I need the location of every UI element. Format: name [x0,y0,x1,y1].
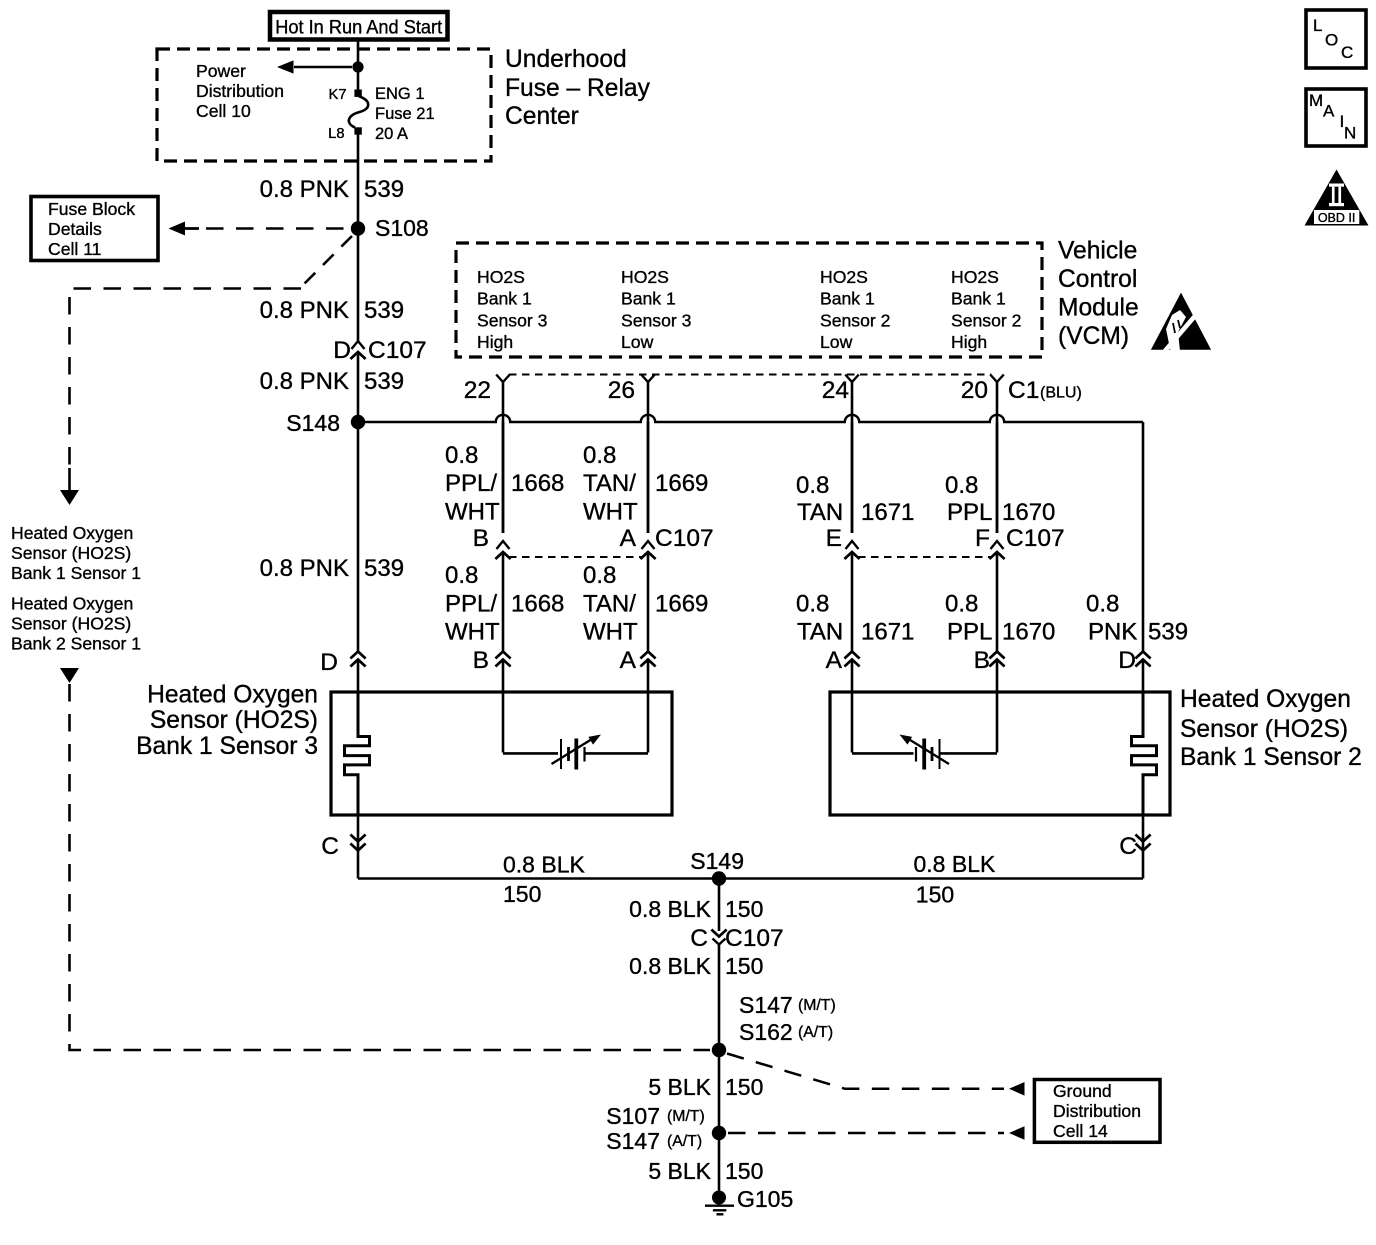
svg-text:0.8: 0.8 [945,472,978,499]
svg-text:5 BLK: 5 BLK [648,1074,711,1100]
svg-text:0.8 PNK: 0.8 PNK [260,297,349,324]
svg-text:L: L [1313,16,1322,35]
svg-text:Cell 11: Cell 11 [48,239,101,259]
svg-text:Low: Low [621,332,654,352]
svg-text:539: 539 [1148,619,1188,646]
svg-text:Bank 2 Sensor 1: Bank 2 Sensor 1 [11,634,141,654]
svg-text:C1: C1 [1008,377,1039,404]
svg-text:Power: Power [196,61,246,81]
svg-text:S147: S147 [739,992,793,1018]
svg-text:Control: Control [1058,266,1137,293]
svg-text:OBD II: OBD II [1318,211,1356,225]
svg-text:150: 150 [503,881,541,907]
svg-text:HO2S: HO2S [477,267,525,287]
svg-text:Bank 1: Bank 1 [951,289,1006,309]
svg-text:S149: S149 [690,848,744,874]
svg-text:20 A: 20 A [375,125,408,143]
svg-text:G105: G105 [737,1186,793,1212]
svg-text:WHT: WHT [583,619,638,646]
svg-text:TAN/: TAN/ [583,470,636,497]
svg-text:O: O [1325,31,1338,50]
svg-text:ENG 1: ENG 1 [375,85,425,103]
svg-text:Hot In Run And Start: Hot In Run And Start [275,17,443,39]
svg-text:M: M [1309,91,1323,110]
svg-text:Bank 1: Bank 1 [621,289,676,309]
svg-text:(M/T): (M/T) [667,1108,705,1125]
svg-text:Cell 10: Cell 10 [196,101,251,121]
svg-text:WHT: WHT [583,499,638,526]
svg-text:HO2S: HO2S [951,267,999,287]
svg-text:D: D [333,337,351,364]
svg-text:539: 539 [364,297,404,324]
svg-text:S162: S162 [739,1019,793,1045]
svg-text:1671: 1671 [861,619,914,646]
svg-text:150: 150 [725,1158,763,1184]
svg-text:539: 539 [364,176,404,203]
svg-text:TAN/: TAN/ [583,591,636,618]
svg-text:Sensor 2: Sensor 2 [820,310,890,330]
svg-text:Bank 1: Bank 1 [477,289,532,309]
svg-text:(BLU): (BLU) [1040,385,1082,402]
svg-text:Fuse Block: Fuse Block [48,199,135,219]
svg-text:B: B [473,525,489,552]
svg-text:Underhood: Underhood [505,46,627,73]
svg-text:F: F [975,525,990,552]
svg-text:1670: 1670 [1002,499,1055,526]
svg-text:C: C [690,925,708,952]
svg-text:0.8 PNK: 0.8 PNK [260,176,349,203]
svg-text:Sensor (HO2S): Sensor (HO2S) [11,543,131,563]
svg-text:Fuse – Relay: Fuse – Relay [505,75,651,102]
svg-text:0.8: 0.8 [1086,591,1119,618]
svg-text:Distribution: Distribution [1053,1101,1141,1121]
svg-text:D: D [320,649,338,676]
svg-text:Sensor (HO2S): Sensor (HO2S) [150,707,318,734]
svg-text:539: 539 [364,368,404,395]
svg-text:High: High [477,332,513,352]
svg-text:L8: L8 [328,126,344,142]
svg-text:A: A [620,525,637,552]
svg-text:150: 150 [725,896,763,922]
svg-text:0.8: 0.8 [796,591,829,618]
svg-text:0.8 PNK: 0.8 PNK [260,555,349,582]
svg-text:A: A [1323,102,1335,121]
svg-text:Sensor 2: Sensor 2 [951,310,1021,330]
svg-text:0.8 PNK: 0.8 PNK [260,368,349,395]
svg-text:C107: C107 [368,337,427,364]
svg-text:C107: C107 [1006,525,1065,552]
svg-text:C: C [1119,833,1137,860]
svg-text:Center: Center [505,103,579,130]
svg-text:539: 539 [364,555,404,582]
svg-text:150: 150 [916,882,954,908]
svg-text:0.8: 0.8 [796,472,829,499]
svg-text:Module: Module [1058,295,1139,322]
svg-text:Sensor (HO2S): Sensor (HO2S) [11,614,131,634]
svg-text:B: B [974,647,990,674]
svg-text:Heated Oxygen: Heated Oxygen [147,682,318,709]
svg-text:26: 26 [608,377,635,404]
svg-text:Heated Oxygen: Heated Oxygen [1180,686,1351,713]
svg-text:Cell 14: Cell 14 [1053,1121,1108,1141]
svg-text:Bank 1 Sensor 1: Bank 1 Sensor 1 [11,563,141,583]
svg-text:Bank 1 Sensor 2: Bank 1 Sensor 2 [1180,744,1362,771]
svg-text:0.8: 0.8 [945,591,978,618]
svg-text:A: A [826,647,843,674]
svg-text:High: High [951,332,987,352]
svg-text:Sensor 3: Sensor 3 [621,310,692,330]
svg-text:WHT: WHT [445,499,500,526]
svg-text:HO2S: HO2S [621,267,669,287]
svg-text:24: 24 [822,377,849,404]
svg-text:S108: S108 [375,215,429,241]
svg-text:Distribution: Distribution [196,81,284,101]
svg-text:Bank 1 Sensor 3: Bank 1 Sensor 3 [136,733,318,760]
svg-text:Heated Oxygen: Heated Oxygen [11,523,133,543]
svg-text:Fuse 21: Fuse 21 [375,105,435,123]
svg-text:S147: S147 [606,1128,660,1154]
svg-text:Low: Low [820,332,853,352]
svg-text:Ground: Ground [1053,1081,1112,1101]
svg-text:Bank 1: Bank 1 [820,289,875,309]
svg-text:(M/T): (M/T) [798,997,836,1014]
svg-text:B: B [473,647,489,674]
svg-text:(A/T): (A/T) [798,1024,833,1041]
svg-text:Vehicle: Vehicle [1058,238,1137,265]
svg-text:20: 20 [961,377,988,404]
svg-text:Heated Oxygen: Heated Oxygen [11,594,133,614]
svg-text:HO2S: HO2S [820,267,868,287]
svg-text:S107: S107 [606,1103,660,1129]
svg-text:1669: 1669 [655,591,708,618]
svg-text:E: E [826,525,842,552]
svg-text:22: 22 [464,377,491,404]
svg-text:TAN: TAN [797,619,843,646]
svg-text:TAN: TAN [797,499,843,526]
svg-text:S148: S148 [286,410,340,436]
svg-text:0.8 BLK: 0.8 BLK [503,852,585,878]
svg-text:0.8 BLK: 0.8 BLK [914,851,996,877]
svg-text:0.8: 0.8 [583,442,616,469]
svg-text:C107: C107 [725,925,784,952]
svg-text:C: C [1341,43,1353,62]
svg-text:WHT: WHT [445,619,500,646]
svg-text:PPL: PPL [947,499,992,526]
svg-text:PPL/: PPL/ [445,591,497,618]
svg-text:PNK: PNK [1088,619,1137,646]
svg-text:1668: 1668 [511,470,564,497]
svg-text:150: 150 [725,953,763,979]
svg-text:D: D [1118,647,1136,674]
svg-text:(VCM): (VCM) [1058,323,1129,350]
svg-text:PPL/: PPL/ [445,470,497,497]
svg-text:N: N [1344,124,1356,143]
svg-text:150: 150 [725,1074,763,1100]
svg-text:1670: 1670 [1002,619,1055,646]
svg-text:C: C [321,833,339,860]
svg-text:0.8: 0.8 [583,562,616,589]
svg-text:Details: Details [48,219,102,239]
svg-text:5 BLK: 5 BLK [648,1158,711,1184]
svg-text:1671: 1671 [861,499,914,526]
svg-text:0.8: 0.8 [445,442,478,469]
svg-text:Sensor 3: Sensor 3 [477,310,548,330]
svg-text:0.8 BLK: 0.8 BLK [629,953,711,979]
svg-text:PPL: PPL [947,619,992,646]
svg-text:C107: C107 [655,525,714,552]
svg-text:1669: 1669 [655,470,708,497]
svg-text:0.8 BLK: 0.8 BLK [629,896,711,922]
svg-text:Sensor (HO2S): Sensor (HO2S) [1180,716,1348,743]
svg-text:K7: K7 [329,87,347,103]
svg-text:(A/T): (A/T) [667,1133,702,1150]
svg-text:A: A [620,647,637,674]
svg-text:1668: 1668 [511,591,564,618]
svg-text:0.8: 0.8 [445,562,478,589]
